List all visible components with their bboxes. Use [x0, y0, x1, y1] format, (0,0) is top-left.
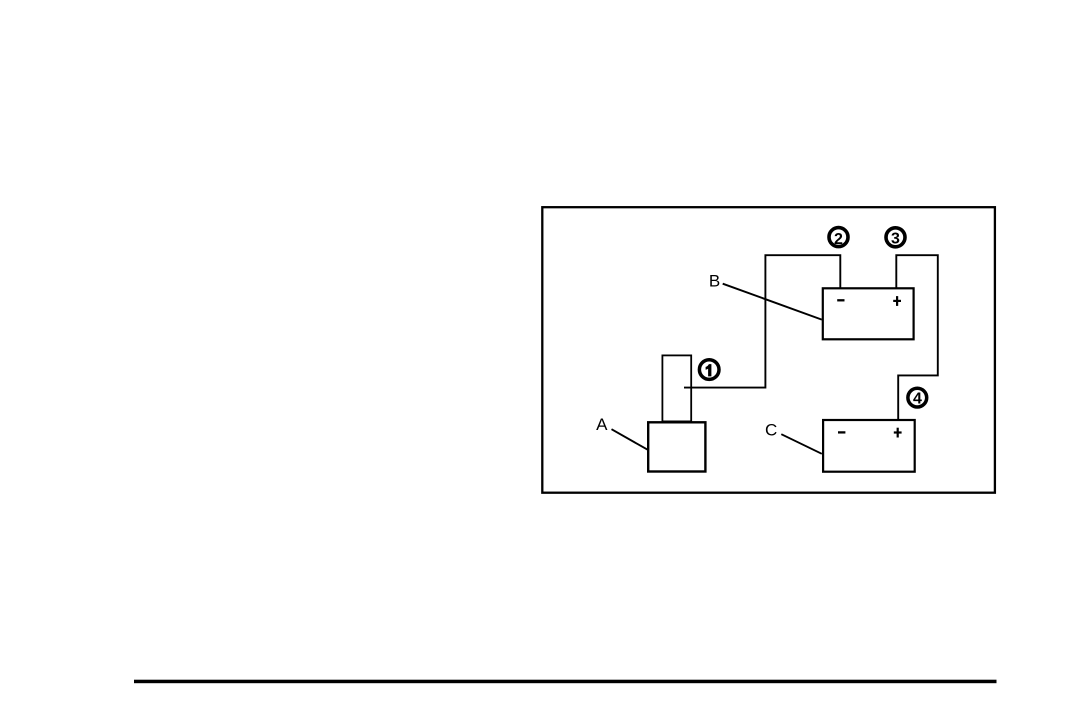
plus terminal label of battery C — [894, 428, 902, 438]
battery B (good battery) — [823, 288, 914, 339]
svg-text:B: B — [709, 271, 720, 290]
svg-text:C: C — [765, 421, 777, 440]
minus terminal label of battery B — [837, 299, 844, 301]
callout circle 4 — [908, 388, 927, 408]
callout circle 2 — [829, 228, 848, 248]
leader line for label B — [723, 284, 822, 320]
bottom horizontal rule — [134, 680, 997, 684]
svg-text:3: 3 — [891, 231, 900, 248]
wire: positive cable from battery B to battery C (segments 3-4) — [896, 255, 938, 420]
wire: negative cable from block A to battery B (segments 1-2) — [684, 255, 840, 387]
svg-text:2: 2 — [834, 231, 843, 248]
bracket on block A — [662, 355, 691, 421]
plus terminal label of battery B — [893, 296, 901, 306]
minus terminal label of battery C — [838, 431, 845, 433]
callout circle 1 — [699, 360, 719, 380]
leader line for label C — [781, 434, 822, 454]
battery C (dead battery) — [823, 420, 915, 472]
figure frame — [542, 207, 995, 493]
svg-text:A: A — [596, 415, 608, 434]
block A (engine/metal part) — [648, 422, 705, 471]
svg-text:4: 4 — [913, 391, 922, 408]
leader line for label A — [612, 429, 649, 450]
callout circle 3 — [886, 228, 905, 248]
